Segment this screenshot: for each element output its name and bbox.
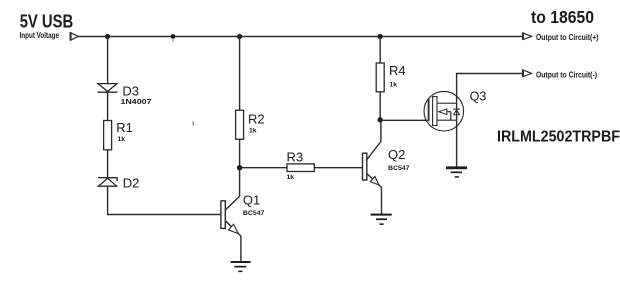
wire: gate node to Q3 gate (380, 119, 428, 121)
svg-text:Q1: Q1 (243, 192, 260, 207)
junction node gate/R4/Q2 collector (378, 117, 383, 122)
resistor R4 (376, 63, 384, 92)
svg-text:1N4007: 1N4007 (121, 99, 152, 106)
ground (Q1 emitter) (231, 261, 251, 272)
mosfet Q3 (424, 91, 464, 131)
wire: Q3 drain up and right to output(-) (457, 74, 523, 168)
wire: Q2 collector up to gate node (380, 120, 382, 142)
svg-text:5V USB: 5V USB (20, 10, 74, 31)
wire: D3 cathode to R1 (107, 92, 109, 120)
svg-text:R2: R2 (248, 111, 265, 126)
svg-text:Q2: Q2 (388, 147, 405, 162)
svg-text:1k: 1k (118, 136, 126, 143)
wire: rail to D3 anode (107, 37, 109, 84)
svg-text:1k: 1k (390, 81, 398, 88)
svg-text:R3: R3 (287, 150, 304, 165)
output terminal + (523, 32, 532, 40)
svg-text:R1: R1 (116, 120, 133, 135)
junction node at R2 branch (237, 34, 242, 39)
svg-text:Q3: Q3 (470, 90, 487, 104)
resistor R1 (104, 121, 112, 150)
input terminal arrow (70, 32, 78, 41)
wire: R3 to Q2 base (314, 167, 363, 169)
svg-text:R4: R4 (389, 63, 406, 78)
svg-text:BC547: BC547 (388, 165, 410, 172)
wire: R2 to junction (239, 139, 241, 168)
svg-text:Output to Circuit(-): Output to Circuit(-) (536, 71, 597, 80)
output terminal - (523, 69, 532, 77)
resistor R2 (236, 110, 244, 139)
svg-text:Input Voltage: Input Voltage (20, 31, 60, 40)
wire: D2 anode down and right to Q1 base (108, 186, 221, 214)
wire (193, 122, 195, 126)
svg-text:D3: D3 (122, 84, 139, 99)
svg-text:to 18650: to 18650 (531, 7, 594, 27)
junction node at D3 branch (105, 34, 110, 39)
svg-text:Output to Circuit(+): Output to Circuit(+) (536, 33, 599, 42)
resistor R3 (287, 164, 314, 172)
svg-text:1k: 1k (249, 127, 257, 134)
wire: top 5V rail (78, 36, 522, 38)
wire: R1 to D2 cathode (107, 150, 109, 178)
junction node mid rail (171, 34, 176, 42)
wire: Q1 collector up to R3 node (239, 168, 241, 197)
svg-text:1k: 1k (287, 174, 295, 181)
transistor Q1 (221, 196, 241, 236)
svg-text:IRLML2502TRPBF: IRLML2502TRPBF (497, 128, 620, 145)
wire: Q2 emitter down to ground (381, 188, 383, 215)
ground (Q3 source) (446, 166, 467, 177)
wire: rail to R2 (239, 37, 241, 111)
wire: R4 to gate node (379, 92, 381, 120)
svg-text:BC547: BC547 (243, 210, 265, 217)
wire: rail to R4 (379, 37, 381, 64)
wire: Q1 emitter down to ground (240, 237, 242, 263)
svg-text:D2: D2 (123, 176, 140, 191)
junction node at R4 branch (378, 34, 383, 39)
ground (Q2 emitter) (371, 214, 392, 225)
diode D3 (98, 84, 118, 93)
transistor Q2 (363, 142, 382, 188)
wire: junction to R3 (240, 167, 287, 169)
zener diode D2 (98, 178, 117, 187)
junction node R2/R3/Q1 collector (237, 165, 242, 170)
